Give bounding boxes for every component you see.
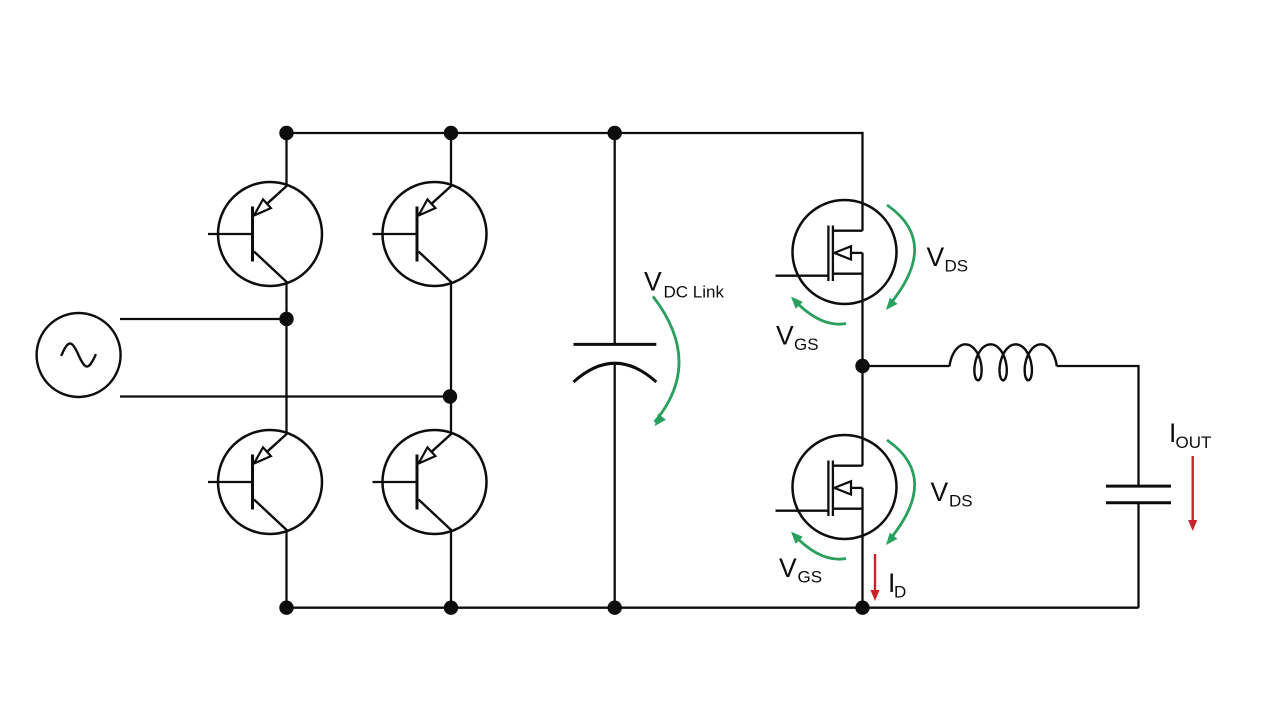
- wire: second leg column: [450, 133, 452, 185]
- svg-text:DS: DS: [945, 257, 969, 276]
- arrow V_DS lower (green): [887, 440, 915, 541]
- arrow V_DS upper (green): [887, 205, 915, 306]
- svg-text:OUT: OUT: [1176, 433, 1212, 452]
- node: top bus cap junction: [608, 126, 622, 140]
- svg-text:V: V: [927, 242, 945, 272]
- svg-text:D: D: [894, 583, 906, 602]
- arrow V_GS upper (green): [794, 300, 847, 325]
- svg-text:DC Link: DC Link: [664, 283, 725, 302]
- capacitor C1 DC link: [574, 344, 657, 382]
- transistor Q2 (top-right): [373, 182, 487, 286]
- node: bottom bus source junction: [855, 601, 869, 615]
- wire: left leg column: [285, 133, 287, 185]
- arrow V_DC Link (green): [653, 296, 679, 422]
- wire: inductor to output cap: [1057, 365, 1139, 367]
- arrow V_GS lower (green): [794, 535, 847, 560]
- wire: output branch to inductor: [863, 365, 950, 367]
- svg-text:V: V: [931, 477, 949, 507]
- node: bottom bus left junction: [279, 601, 293, 615]
- arrow I_D (red): [874, 554, 876, 591]
- wire: output cap column: [1137, 365, 1139, 486]
- svg-text:GS: GS: [798, 568, 823, 587]
- node: top bus left junction: [279, 126, 293, 140]
- capacitor C2 output: [1106, 486, 1171, 503]
- wire: AC source bottom lead: [120, 395, 451, 397]
- MOSFET Q6 (low side): [776, 435, 897, 539]
- MOSFET Q5 (high side): [776, 200, 897, 304]
- svg-text:V: V: [776, 321, 794, 351]
- wire: DC-link capacitor column: [614, 133, 616, 344]
- svg-text:DS: DS: [949, 492, 973, 511]
- svg-text:V: V: [644, 267, 662, 297]
- transistor Q3 (bottom-left): [208, 430, 322, 534]
- arrow I_OUT (red): [1191, 456, 1193, 521]
- svg-text:GS: GS: [794, 335, 819, 354]
- node: half-bridge midpoint: [855, 359, 869, 373]
- node: bottom bus cap junction: [608, 601, 622, 615]
- transistor Q4 (bottom-right): [373, 430, 487, 534]
- wire: bottom DC bus: [287, 607, 1139, 609]
- node: top bus mid junction: [444, 126, 458, 140]
- node: bottom bus leg2 junction: [444, 601, 458, 615]
- transistor Q1 (top-left): [208, 182, 322, 286]
- inductor L1: [950, 344, 1057, 380]
- wire: half-bridge column: [861, 132, 863, 231]
- wire: top DC bus: [287, 132, 863, 134]
- node: AC bottom to leg2 junction: [443, 389, 457, 403]
- wire: AC source top lead: [120, 318, 287, 320]
- svg-text:V: V: [779, 553, 797, 583]
- AC source V1: [37, 313, 121, 397]
- node: AC top to leg1 junction: [279, 312, 293, 326]
